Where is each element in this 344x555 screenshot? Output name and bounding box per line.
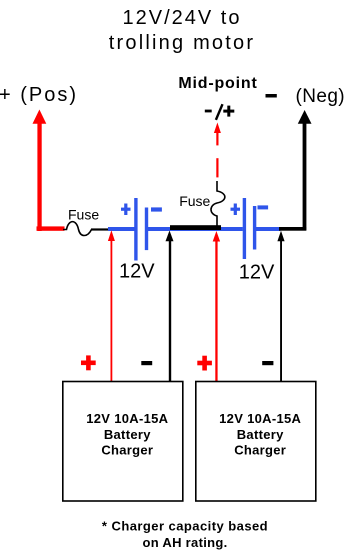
wire: charger 2 positive (red) with arrow — [213, 231, 220, 381]
svg-text:on AH rating.: on AH rating. — [142, 535, 227, 550]
label charger 1 + — [81, 355, 96, 370]
note: charger capacity — [102, 519, 268, 550]
wire: positive lead (red) with arrow — [33, 110, 65, 232]
svg-text:Charger: Charger — [101, 443, 153, 458]
svg-text:12V 10A-15A: 12V 10A-15A — [219, 411, 301, 426]
label charger 2 - — [262, 361, 273, 365]
svg-text:Fuse: Fuse — [68, 207, 99, 223]
wire: negative lead (black) with arrow — [279, 110, 312, 231]
svg-text:12V/24V to: 12V/24V to — [123, 7, 242, 29]
svg-text:Battery: Battery — [237, 427, 284, 442]
charger 1 box — [63, 382, 183, 502]
svg-text:trolling motor: trolling motor — [109, 32, 255, 54]
svg-text:(Neg): (Neg) — [296, 86, 344, 107]
fuse F1 — [63, 222, 92, 236]
svg-text:Fuse: Fuse — [179, 193, 210, 209]
battery B1 plates — [134, 198, 148, 261]
svg-text:+ (Pos): + (Pos) — [0, 84, 78, 106]
battery B2 + mark — [231, 204, 241, 216]
battery B2 plates — [243, 198, 257, 259]
battery B1 + mark — [121, 204, 131, 216]
label charger 1 - — [141, 361, 152, 365]
title — [109, 7, 255, 54]
fuse F2 (mid-point) — [211, 181, 225, 227]
wire: charger 1 negative (black) with arrow — [166, 231, 174, 382]
wire: charger 1 positive (red) with arrow — [108, 230, 115, 381]
svg-text:12V: 12V — [239, 261, 275, 283]
battery B1 - mark — [151, 207, 162, 211]
svg-text:* Charger capacity based: * Charger capacity based — [102, 519, 268, 534]
svg-text:12V 10A-15A: 12V 10A-15A — [86, 411, 168, 426]
svg-text:12V: 12V — [119, 261, 155, 283]
svg-text:Charger: Charger — [234, 443, 286, 458]
battery B2 - mark — [258, 205, 269, 209]
svg-text:Mid-point: Mid-point — [178, 75, 257, 92]
svg-text:Battery: Battery — [104, 427, 151, 442]
wire: charger 2 negative (black) with arrow — [277, 231, 284, 381]
wire: series link B1- to B2+ (black) — [170, 225, 221, 230]
wire: battery bus (blue) — [108, 227, 281, 231]
charger 2 box — [196, 382, 316, 502]
label charger 2 + — [197, 356, 212, 371]
label - /+ (mid-point polarity) — [205, 104, 235, 120]
wire: mid-point tap (red dashed) with arrow — [214, 123, 221, 178]
wire: fuse F1 to battery B1 (black) — [91, 228, 110, 230]
label - (Neg) — [266, 86, 344, 107]
